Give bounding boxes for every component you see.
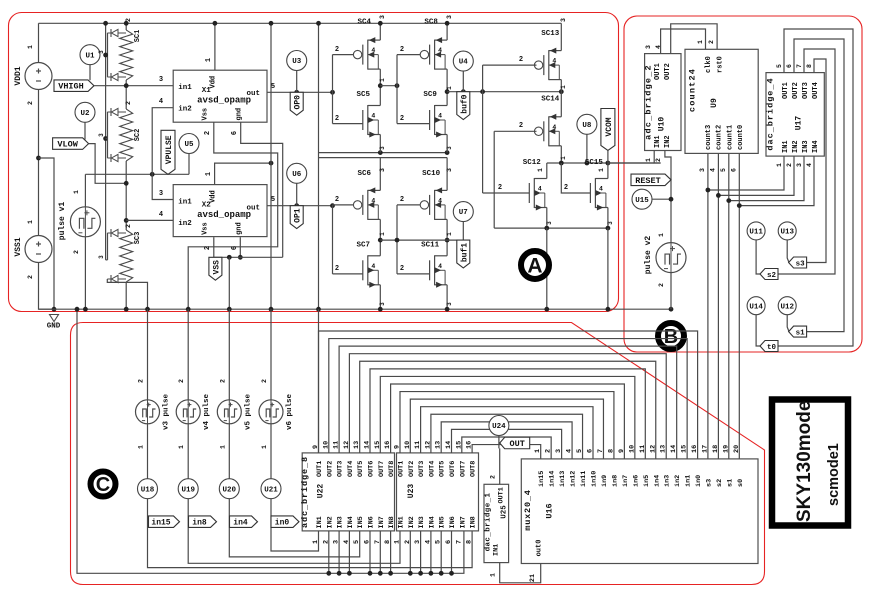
- svg-text:3: 3: [555, 449, 563, 453]
- wire adc OUT6 to mux in: [370, 369, 645, 459]
- IC U16 mux20_4: [521, 459, 758, 564]
- label U23 pin12: [424, 441, 432, 449]
- wire SC14 gate col: [493, 131, 495, 228]
- svg-text:4: 4: [538, 186, 542, 193]
- svg-text:VLOW: VLOW: [57, 140, 78, 150]
- label U16 pin14: [670, 445, 678, 453]
- label SC14 designator: [541, 95, 560, 103]
- label U9 pin5: [720, 168, 727, 172]
- net label buf0: [457, 92, 470, 120]
- svg-text:in4: in4: [653, 475, 661, 487]
- svg-text:1: 1: [205, 58, 213, 62]
- label U9 pin2: [708, 40, 715, 44]
- svg-text:Vss: Vss: [202, 222, 210, 235]
- U23 texts: [407, 484, 416, 499]
- X2 texts: [178, 190, 260, 235]
- svg-text:OUT2: OUT2: [792, 82, 800, 99]
- svg-text:4: 4: [371, 263, 375, 270]
- label U23 OUT2 text: [408, 461, 416, 477]
- wire pulse v1 top: [84, 174, 86, 207]
- label SC11 bulk pin 4: [438, 263, 442, 270]
- net label OUT: [500, 437, 530, 449]
- label U17 pin8: [806, 64, 813, 68]
- label U22 OUT1 text: [316, 461, 324, 477]
- svg-text:4: 4: [438, 113, 442, 120]
- label SC7 gate pin2: [335, 265, 339, 273]
- wire SC12 top: [546, 163, 548, 179]
- svg-text:20: 20: [733, 445, 741, 453]
- wire SC13 gate feed: [483, 64, 537, 66]
- label opamp X2 pin3: [159, 190, 163, 198]
- svg-text:U15: U15: [635, 197, 649, 205]
- wire adc OUT7 to mux in: [380, 376, 635, 458]
- wire row feed vertical: [318, 23, 320, 309]
- label U10 pin4: [655, 45, 662, 49]
- svg-text:2: 2: [400, 196, 404, 204]
- svg-text:mux20_4: mux20_4: [523, 489, 533, 530]
- svg-text:SC3: SC3: [134, 232, 142, 245]
- svg-text:SC12: SC12: [523, 159, 542, 167]
- wire pulse v1 bottom: [84, 237, 86, 309]
- U9 texts: [688, 56, 746, 150]
- wire SC7 gate lead: [333, 273, 363, 275]
- label U23 pin10: [404, 441, 412, 449]
- transistor SC9: [430, 105, 448, 138]
- wire SC1 bottom: [125, 80, 127, 109]
- wire X1 gnd pin6 route: [241, 122, 283, 257]
- label U16 in9 text: [601, 475, 609, 487]
- pulse source pulse v2: [656, 243, 686, 273]
- svg-text:U22: U22: [317, 484, 326, 499]
- net label VPULSE: [161, 130, 175, 174]
- wire ground rail: [39, 308, 672, 310]
- wire SC12 gate lead: [483, 192, 530, 194]
- label SC8 bulk pin 4: [438, 47, 442, 54]
- junction SC12 gate feed tap: [480, 89, 485, 94]
- junction VCOM a: [559, 161, 564, 166]
- svg-text:gnd: gnd: [236, 108, 244, 121]
- svg-text:2: 2: [400, 46, 404, 54]
- svg-text:count3: count3: [705, 125, 713, 150]
- svg-text:3: 3: [98, 50, 105, 54]
- svg-text:U14: U14: [749, 303, 763, 311]
- wire SC4 gate lead: [333, 54, 354, 56]
- junction VHIGH chain tap: [124, 83, 129, 88]
- wire SC6 gate lead: [333, 204, 354, 206]
- U10 texts: [644, 63, 673, 148]
- label U23 IN1 text: [398, 516, 406, 528]
- label v3 name: [163, 394, 171, 431]
- junction row1 bottom rail a: [378, 150, 383, 155]
- svg-text:U17: U17: [795, 116, 804, 131]
- wire SC1 shorts join: [107, 33, 109, 77]
- label U23 IN5 text: [439, 516, 447, 528]
- junction pair1 gate rail tap: [330, 90, 335, 95]
- wire IN stub x339.1: [338, 531, 340, 573]
- wire VCOM stem: [607, 151, 609, 164]
- svg-text:SC2: SC2: [134, 129, 142, 142]
- svg-text:5: 5: [576, 449, 584, 453]
- label U16 in13 text: [559, 471, 567, 487]
- label U23 pin2: [404, 540, 412, 544]
- wire U10 IN2 to RESET net: [665, 151, 671, 243]
- svg-text:4: 4: [438, 47, 442, 54]
- svg-text:VSS: VSS: [212, 260, 221, 275]
- wire adc OUT14 to mux in: [452, 429, 562, 458]
- net label OP0: [290, 92, 303, 115]
- label U17 pin2in: [786, 163, 793, 167]
- label pulse v2 pin1: [658, 233, 665, 237]
- svg-text:21: 21: [529, 574, 537, 582]
- wire adc OUT1 to mux in: [319, 331, 698, 459]
- label SC7 designator: [357, 241, 371, 249]
- wire U2 stem: [84, 122, 86, 139]
- IC U25 dac_bridge_1: [484, 484, 509, 562]
- label U16 pin4: [566, 449, 574, 453]
- wire SC12 to ground: [546, 228, 548, 309]
- svg-text:in4: in4: [233, 519, 248, 528]
- wire adc OUT8 to mux in: [391, 384, 625, 459]
- svg-text:4: 4: [159, 98, 163, 106]
- wire adc OUT13 to mux in: [441, 422, 572, 459]
- wire row2 mid rail: [380, 239, 463, 241]
- svg-text:in13: in13: [559, 471, 567, 487]
- svg-text:v3 pulse: v3 pulse: [163, 394, 171, 431]
- transistor SC4: [353, 37, 380, 70]
- svg-text:in9: in9: [601, 475, 609, 487]
- label SC2 designator: [134, 129, 142, 142]
- svg-text:OUT4: OUT4: [428, 461, 436, 477]
- wire pair1 mid to pair2 gate: [380, 85, 397, 87]
- svg-text:2: 2: [138, 379, 145, 383]
- svg-text:OUT1: OUT1: [654, 63, 662, 80]
- label SC12 designator: [523, 159, 542, 167]
- U16 texts: [523, 489, 555, 556]
- net label VLOW: [53, 138, 89, 150]
- svg-text:1: 1: [138, 445, 145, 449]
- label U23 OUT8 text: [470, 461, 478, 477]
- junction VPULSE junction: [150, 172, 155, 177]
- annotation U15: [632, 189, 652, 209]
- voltage source VDD1: [25, 63, 52, 90]
- svg-text:2: 2: [655, 158, 662, 162]
- transistor SC6: [353, 187, 380, 220]
- wire SC5 bottom: [379, 135, 381, 153]
- junction row1 bottom rail b: [445, 150, 450, 155]
- junction bus junction x349.4: [347, 571, 352, 576]
- junction row feed top: [316, 21, 321, 26]
- svg-text:U16: U16: [545, 503, 555, 518]
- label SC12 bulk pin 4: [538, 186, 542, 193]
- svg-text:IN4: IN4: [812, 140, 820, 153]
- SKY130 model box: [772, 395, 848, 525]
- svg-text:U1: U1: [85, 52, 95, 60]
- label U16 in3 text: [664, 475, 672, 487]
- svg-text:2: 2: [125, 18, 132, 22]
- svg-text:U19: U19: [181, 486, 195, 494]
- wire SC9 gate lead: [397, 123, 430, 125]
- label SC2 pin2: [125, 101, 132, 105]
- wire pulse v2 bottom: [670, 273, 672, 310]
- annotation U1: [80, 45, 100, 65]
- wire adc OUT3 to mux in: [339, 346, 677, 459]
- svg-text:6: 6: [231, 131, 239, 135]
- svg-text:5: 5: [776, 64, 783, 68]
- wire row2 top rail: [319, 157, 448, 159]
- svg-text:IN2: IN2: [326, 516, 334, 528]
- svg-text:4: 4: [552, 124, 556, 131]
- svg-text:1: 1: [205, 172, 213, 176]
- wire count3 to U17 IN1: [708, 156, 784, 190]
- wire v3 net vertical: [147, 309, 149, 400]
- label SC4 designator: [358, 19, 372, 27]
- svg-text:7: 7: [597, 449, 605, 453]
- svg-text:VSS1: VSS1: [14, 237, 23, 256]
- svg-text:Vdd: Vdd: [210, 76, 218, 89]
- junction X2 Vdd junction: [269, 161, 274, 166]
- svg-text:18: 18: [712, 445, 720, 453]
- label U9 pin4: [709, 168, 716, 172]
- wire v6 bottom stem: [270, 424, 272, 479]
- wire VHIGH to in1: [94, 85, 173, 87]
- wire SC8 drain to rail: [446, 23, 448, 40]
- label VSS1 pin 2: [27, 275, 34, 279]
- wire opamp X1 in2 tap: [152, 108, 173, 175]
- label SC14 bulk pin 4: [552, 124, 556, 131]
- label U16 in1 text: [685, 475, 693, 487]
- wire count0 stub: [738, 153, 740, 205]
- svg-text:GND: GND: [47, 323, 61, 331]
- svg-text:1: 1: [537, 168, 544, 172]
- label U16 in11 text: [580, 471, 588, 487]
- svg-text:6: 6: [786, 64, 793, 68]
- svg-text:U18: U18: [141, 486, 155, 494]
- wire chain SC1 top: [125, 23, 127, 30]
- junction bus junction x380.3: [378, 571, 383, 576]
- wire count0 to U17 IN4: [739, 156, 814, 206]
- svg-text:1: 1: [446, 86, 453, 90]
- label U23 OUT7 text: [459, 461, 467, 477]
- svg-text:s0: s0: [737, 479, 745, 487]
- label pulse v1 name: [58, 202, 67, 241]
- label U16 pin6: [587, 449, 595, 453]
- junction SC7 gnd: [378, 307, 383, 312]
- label pair1 mid pin1: [379, 78, 386, 82]
- wire SC3 shorts jog: [106, 259, 108, 261]
- wire VCOM rail: [547, 162, 661, 164]
- junction SC4 rail tap: [378, 21, 383, 26]
- svg-text:SC13: SC13: [541, 30, 560, 38]
- svg-text:IN7: IN7: [378, 516, 386, 528]
- svg-text:v4 pulse: v4 pulse: [203, 394, 211, 431]
- label U23 IN3 text: [418, 516, 426, 528]
- label X2 pin1: [205, 172, 213, 176]
- label U17 pin1in: [776, 163, 783, 167]
- svg-text:IN5: IN5: [357, 516, 365, 528]
- svg-text:3: 3: [796, 163, 803, 167]
- wire s0 net to mux: [738, 206, 740, 459]
- svg-text:U5: U5: [184, 141, 194, 149]
- junction v5 gnd crossing: [227, 307, 232, 312]
- wire U3 stem: [296, 71, 298, 93]
- transistor SC8: [420, 37, 447, 70]
- svg-text:U12: U12: [780, 303, 794, 311]
- label U17 pin3in: [796, 163, 803, 167]
- wire IN stub x380.3: [379, 531, 381, 573]
- svg-text:SKY130model: SKY130model: [794, 395, 815, 522]
- svg-text:SC7: SC7: [357, 241, 371, 249]
- label v3 pin1: [138, 445, 145, 449]
- svg-text:IN4: IN4: [428, 516, 436, 528]
- IC U17 dac_bridge_4: [766, 73, 824, 157]
- svg-text:gnd: gnd: [236, 222, 244, 235]
- svg-text:A: A: [527, 255, 542, 278]
- net label in8: [189, 516, 217, 528]
- net label in0: [271, 516, 299, 528]
- label U22 pin11: [333, 441, 341, 449]
- wire U14 stem: [756, 315, 760, 346]
- svg-text:4: 4: [371, 113, 375, 120]
- wire SC1 shorts jog: [106, 54, 108, 56]
- label U23 pin9: [394, 445, 402, 449]
- wire opamp X2 in1 tap: [152, 174, 173, 199]
- transistor SC13: [534, 48, 561, 81]
- label U16 pin2: [545, 449, 553, 453]
- label U16 pin12: [649, 445, 657, 453]
- wire adc OUT2 to mux in: [329, 339, 687, 459]
- wire SC3 bottom: [125, 282, 127, 309]
- wire adc OUT15 to mux in: [462, 437, 551, 459]
- svg-text:adc_bridge_8: adc_bridge_8: [300, 456, 310, 528]
- svg-text:6: 6: [587, 449, 595, 453]
- svg-text:IN2: IN2: [792, 140, 800, 153]
- wire VLOW route: [89, 144, 127, 184]
- wire IN stub x349.4: [348, 531, 350, 573]
- label U23 IN4 text: [428, 516, 436, 528]
- svg-text:s2: s2: [767, 272, 777, 280]
- label U23 pin8: [466, 540, 474, 544]
- svg-text:in2: in2: [674, 475, 682, 487]
- svg-text:OUT3: OUT3: [337, 461, 345, 477]
- svg-text:dac_bridge_4: dac_bridge_4: [766, 77, 776, 150]
- label U23 IN8 text: [470, 516, 478, 528]
- junction SC13 mid: [559, 89, 564, 94]
- svg-text:3: 3: [607, 221, 614, 225]
- junction s0 junction: [737, 203, 742, 208]
- svg-text:SC5: SC5: [357, 91, 371, 99]
- junction pair1 mid: [378, 83, 383, 88]
- svg-text:3: 3: [379, 15, 386, 19]
- wire v5 net down: [228, 257, 230, 309]
- pulse source v5 pulse: [217, 400, 241, 424]
- svg-text:1: 1: [534, 449, 542, 453]
- badge B: [658, 323, 684, 349]
- label SC15 designator: [585, 159, 604, 167]
- junction bus junction x441.2: [439, 571, 444, 576]
- svg-text:B: B: [664, 326, 678, 348]
- annotation U4: [453, 51, 473, 71]
- label U16 in4 text: [653, 475, 661, 487]
- label U23 pin3: [414, 540, 422, 544]
- label U22 pin9: [312, 445, 320, 449]
- svg-text:3: 3: [379, 302, 386, 306]
- label U25 pin1: [490, 573, 497, 577]
- label VSS1 pin 1: [27, 220, 34, 224]
- resistor SC3: [107, 229, 132, 283]
- label U16 s1 text: [726, 479, 734, 487]
- svg-text:2: 2: [400, 265, 404, 273]
- wire VDD rail drop to SC13: [560, 23, 562, 50]
- svg-text:4: 4: [709, 168, 716, 172]
- wire v6 net from VDD rail: [270, 23, 272, 309]
- label X1 pin6: [231, 131, 239, 135]
- label SC5 gate pin2: [335, 115, 339, 123]
- svg-text:3: 3: [446, 15, 453, 19]
- svg-text:in14: in14: [549, 471, 557, 487]
- label pulse v1 pin 1: [73, 190, 80, 194]
- label SC9 pin3: [446, 146, 453, 150]
- junction shorts rail top: [103, 21, 108, 26]
- label U16 in14 text: [549, 471, 557, 487]
- label SC15 gate pin2: [564, 184, 568, 192]
- wire count3 stub: [707, 153, 709, 190]
- junction row2 gate rail tap: [330, 203, 335, 208]
- wire adc OUT12 to mux in: [431, 414, 583, 459]
- svg-text:Vdd: Vdd: [210, 190, 218, 203]
- svg-text:avsd_opamp: avsd_opamp: [197, 210, 251, 220]
- label U22 pin16: [384, 441, 392, 449]
- label SC4 pin3: [379, 15, 386, 19]
- net label s3: [789, 257, 807, 269]
- label pair2 mid pin1: [446, 86, 453, 90]
- label SC5 bulk pin 4: [371, 113, 375, 120]
- svg-text:2: 2: [335, 46, 339, 54]
- label row2 mid pin1 b: [446, 232, 453, 236]
- svg-text:1: 1: [73, 190, 80, 194]
- svg-text:1: 1: [598, 168, 605, 172]
- svg-text:OUT: OUT: [510, 439, 525, 449]
- svg-text:2: 2: [490, 475, 497, 479]
- svg-text:3: 3: [446, 302, 453, 306]
- svg-text:IN5: IN5: [439, 516, 447, 528]
- svg-text:1: 1: [27, 220, 34, 224]
- junction chain top: [124, 21, 129, 26]
- junction bus junction x420.6: [418, 571, 423, 576]
- svg-text:4: 4: [159, 211, 163, 219]
- junction v4 gnd crossing: [186, 307, 191, 312]
- transistor SC5: [363, 105, 381, 138]
- svg-text:8: 8: [806, 64, 813, 68]
- wire VSS rail: [214, 256, 283, 258]
- wire VDD1 top to VDD rail: [38, 23, 40, 62]
- svg-text:OUT7: OUT7: [378, 461, 386, 477]
- svg-text:VHIGH: VHIGH: [58, 82, 84, 92]
- wire U17 OUT4 net: [807, 59, 826, 263]
- svg-text:OUT1: OUT1: [316, 461, 324, 477]
- svg-text:14: 14: [670, 445, 678, 453]
- label U22 pin14: [364, 441, 372, 449]
- label U16 pin10: [628, 445, 636, 453]
- annotation U18: [138, 479, 158, 499]
- svg-text:6: 6: [730, 168, 737, 172]
- svg-text:Vss: Vss: [202, 108, 210, 121]
- wire VDD rail: [39, 22, 562, 24]
- svg-text:scmode1: scmode1: [826, 443, 842, 506]
- U17 texts: [766, 77, 821, 153]
- svg-text:OUT8: OUT8: [388, 461, 396, 477]
- junction OP1 tap: [294, 203, 299, 208]
- svg-text:s1: s1: [726, 479, 734, 487]
